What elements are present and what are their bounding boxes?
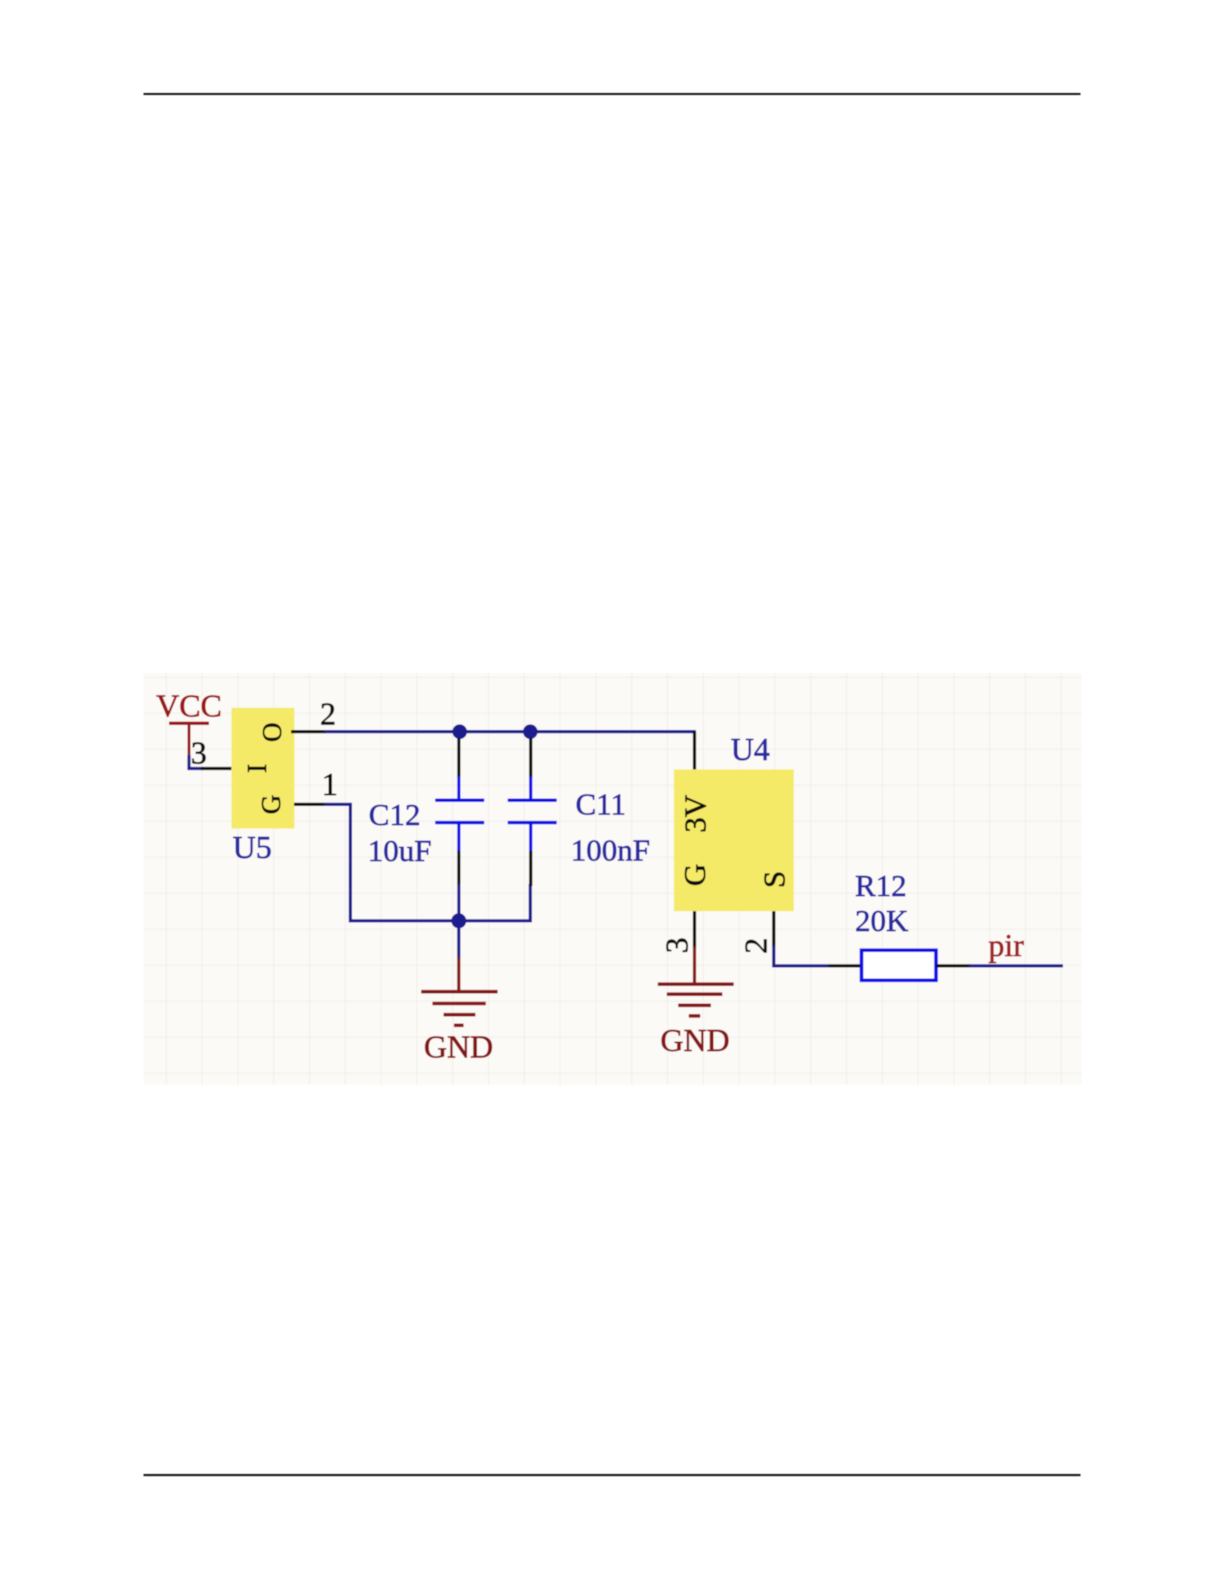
pin 1 of U5: [294, 803, 325, 806]
capacitor C11: [508, 738, 557, 886]
U4 pin 2: [772, 911, 775, 947]
svg-text:GND: GND: [424, 1029, 493, 1065]
svg-text:3V: 3V: [678, 794, 713, 833]
bottom rule: [144, 1474, 1081, 1476]
junction dot B: [523, 724, 538, 739]
svg-text:C12: C12: [369, 797, 421, 832]
svg-text:I: I: [242, 764, 272, 773]
svg-text:G: G: [677, 864, 712, 886]
wire U5 pin 1 to bottom rail: [324, 804, 459, 920]
wire net to U4 pin 1: [693, 732, 696, 770]
wire net from U5 pin 2 to U4: [324, 730, 696, 733]
IC U5 body: [231, 708, 294, 829]
svg-text:U4: U4: [731, 731, 770, 767]
svg-text:O: O: [257, 722, 287, 742]
capacitor C12: [435, 738, 484, 921]
wire VCC to U5 pin 3: [189, 755, 203, 769]
IC U4 body: [674, 769, 794, 911]
ground symbol right: [658, 984, 734, 1016]
svg-text:3: 3: [191, 735, 207, 771]
junction dot C: [451, 913, 466, 928]
wire U4 pin2 to R12: [774, 946, 830, 966]
resistor R12: [829, 950, 971, 980]
svg-text:G: G: [256, 795, 286, 815]
svg-text:R12: R12: [855, 868, 907, 903]
svg-text:100nF: 100nF: [571, 833, 650, 868]
wire bottom rail to C11: [459, 884, 530, 921]
svg-text:10uF: 10uF: [368, 833, 432, 868]
ground symbol left: [421, 958, 497, 1026]
svg-text:pir: pir: [988, 927, 1024, 963]
svg-text:1: 1: [322, 766, 338, 802]
svg-text:U5: U5: [233, 829, 272, 865]
pin 2 of U5: [291, 730, 326, 733]
svg-text:C11: C11: [576, 787, 627, 822]
power symbol VCC: [169, 723, 209, 756]
svg-text:2: 2: [320, 696, 336, 732]
svg-text:S: S: [757, 871, 792, 888]
wire junction to ground: [457, 927, 460, 959]
wire U4 pin3 to ground: [693, 947, 696, 985]
junction dot A: [452, 724, 467, 739]
schematic background: [144, 673, 1082, 1085]
svg-text:2: 2: [738, 938, 774, 954]
U4 pin 3: [693, 911, 696, 948]
top rule: [144, 93, 1081, 95]
pin 3 of U5: [201, 767, 232, 770]
svg-text:3: 3: [659, 937, 695, 953]
svg-text:VCC: VCC: [156, 688, 222, 724]
svg-text:GND: GND: [660, 1022, 729, 1058]
svg-text:20K: 20K: [855, 903, 909, 938]
wire R12 to pir: [969, 964, 1063, 967]
